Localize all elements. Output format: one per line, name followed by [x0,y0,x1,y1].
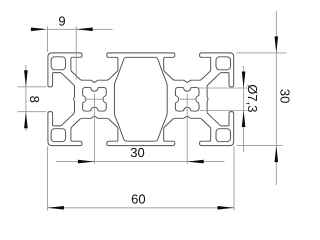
center cavity [114,57,167,141]
dimension 30 bottom: right arrow [187,160,204,164]
dimension 30 right: bottom extension line [237,145,283,147]
dimension 30 right: bottom arrow [275,146,279,163]
dimension 60: right extension line [233,146,235,210]
svg-text:Ø7,3: Ø7,3 [245,84,260,112]
corner screw channel bottom-left [51,129,66,142]
dimension 8: top arrow [24,70,28,87]
svg-text:30: 30 [130,145,144,160]
dimension 30 right: top extension line [237,52,287,54]
dimension 9: right arrow [76,28,93,32]
dimension 8: dimension line [25,65,27,131]
svg-text:30: 30 [277,89,292,103]
dimension Ø7,3: top extension line [199,87,248,89]
left core centerline [93,94,95,164]
right core bore [175,87,199,111]
corner screw channel top-right [216,57,231,70]
dimension Ø7,3: dimension line [243,66,245,152]
dimension 8: bottom extension line [18,111,47,113]
dimension 60: left arrow [47,206,64,210]
dimension 9: left arrow [31,28,48,32]
dimension Ø7,3: bottom arrow [242,111,246,128]
svg-text:60: 60 [131,192,145,207]
dimension 30 bottom: dimension line [56,161,225,163]
dimension 8: bottom arrow [24,112,28,129]
corner screw channel top-left [51,57,66,70]
dimension 30 bottom: left arrow [78,160,95,164]
dimension Ø7,3: top arrow [242,72,246,89]
dimension 9: extension line at profile left edge [46,26,48,52]
dimension Ø7,3: bottom extension line [200,110,248,112]
left core bore [83,87,107,111]
svg-text:8: 8 [27,96,42,103]
dimension 60: right arrow [218,206,235,210]
dimension 30 right: dimension line [275,11,277,185]
right core center tick [178,98,197,100]
dimension 30 right: top arrow [275,36,279,53]
right core centerline [186,94,188,164]
svg-text:9: 9 [58,14,65,29]
dimension 8: top extension line [18,86,47,88]
profile outer outline [48,53,234,146]
dimension 9: extension line at slot lip [75,26,77,79]
dimension 60: dimension line [47,207,234,209]
corner screw channel bottom-right [216,129,231,142]
dimension 9: dimension line [47,28,112,30]
dimension 60: left extension line [46,146,48,210]
left core center tick [85,98,104,100]
